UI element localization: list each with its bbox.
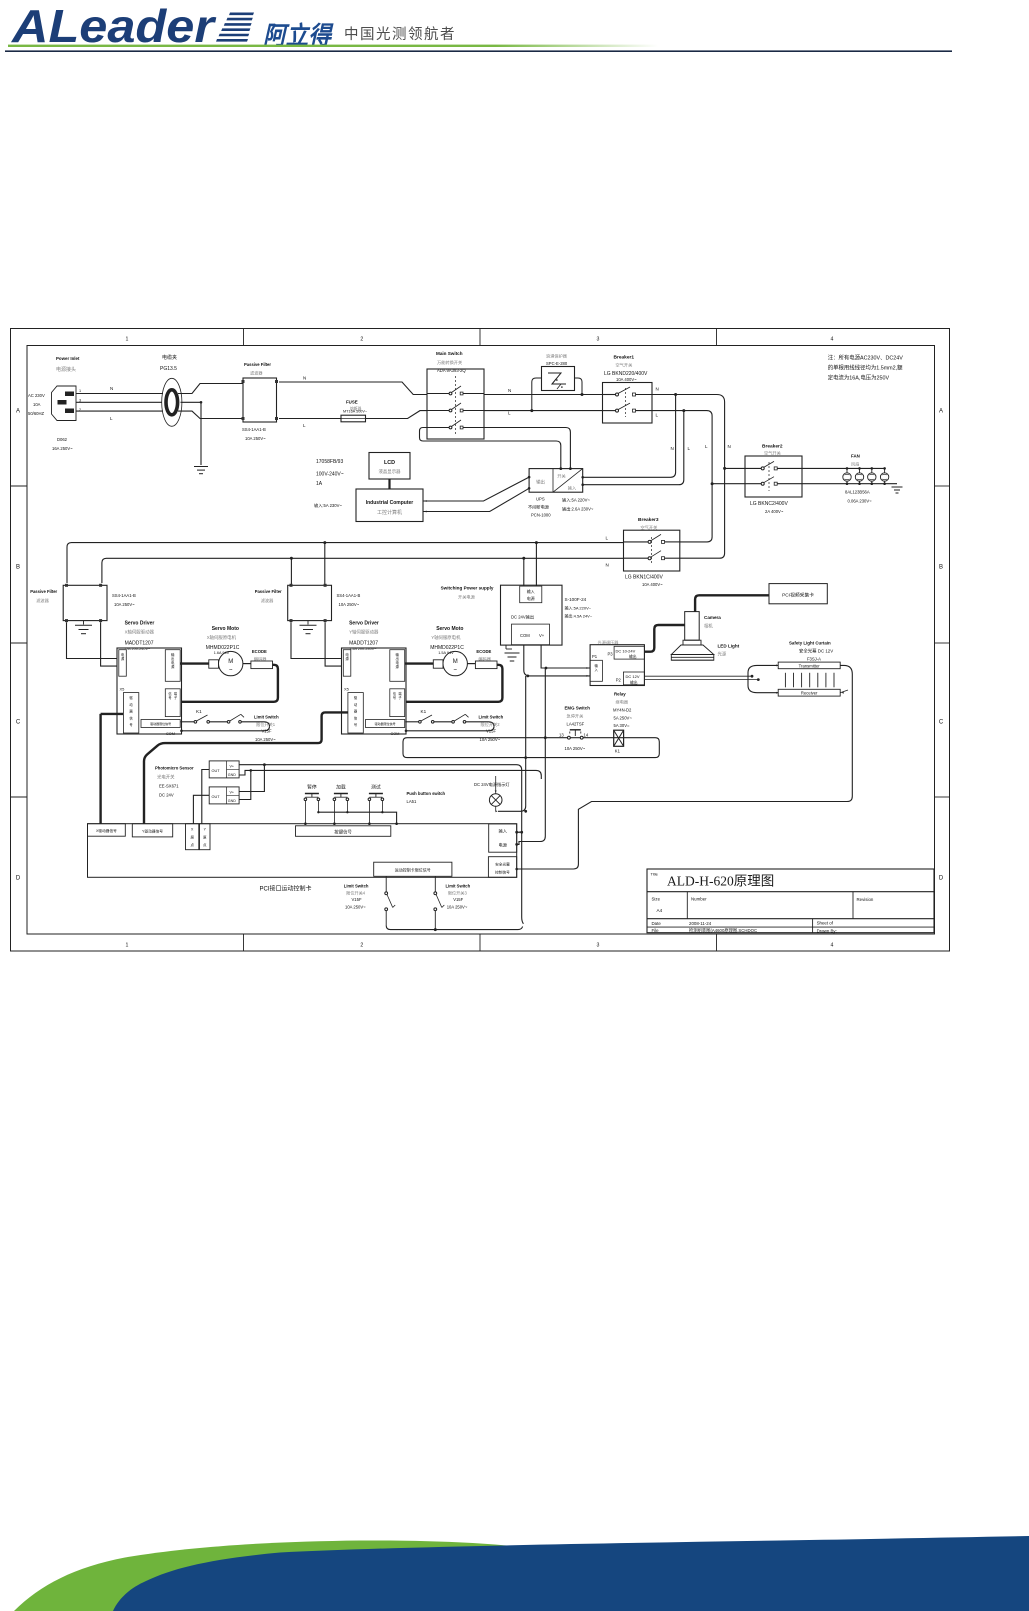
svg-text:光电开关: 光电开关 (157, 774, 175, 781)
svg-text:M: M (453, 659, 458, 665)
svg-text:Limit Switch: Limit Switch (344, 884, 369, 889)
svg-text:点: 点 (190, 842, 194, 847)
svg-text:Passive Filter: Passive Filter (244, 362, 271, 367)
svg-text:1A: 1A (316, 481, 323, 487)
svg-text:按键信号: 按键信号 (334, 829, 352, 836)
svg-text:输出:4.5A 24V~: 输出:4.5A 24V~ (565, 613, 593, 619)
svg-text:安全光幕: 安全光幕 (495, 862, 510, 867)
svg-text:4: 4 (831, 337, 834, 343)
svg-text:动: 动 (354, 702, 358, 707)
svg-text:1.5A 94V: 1.5A 94V (438, 651, 454, 655)
svg-text:Switching Power supply: Switching Power supply (441, 586, 494, 591)
svg-text:Date: Date (652, 921, 662, 926)
svg-text:Servo Driver: Servo Driver (349, 621, 379, 627)
svg-text:子: 子 (398, 695, 402, 700)
svg-text:源: 源 (396, 664, 400, 669)
svg-text:急停开关: 急停开关 (567, 713, 584, 720)
svg-text:EE-SX671: EE-SX671 (159, 784, 179, 789)
svg-text:限位开关2: 限位开关2 (481, 721, 501, 728)
svg-text:PCI接口运动控制卡: PCI接口运动控制卡 (260, 885, 312, 893)
svg-text:限位开关1: 限位开关1 (256, 721, 276, 728)
svg-text:Servo Moto: Servo Moto (436, 626, 463, 632)
svg-text:加载: 加载 (336, 784, 346, 791)
svg-text:L: L (688, 446, 691, 451)
svg-text:10A 400V~: 10A 400V~ (616, 377, 637, 382)
svg-text:2: 2 (360, 337, 363, 343)
svg-text:D: D (939, 876, 944, 882)
svg-text:X轴伺服原电机: X轴伺服原电机 (207, 634, 237, 641)
svg-text:SPC-E-280: SPC-E-280 (546, 361, 568, 366)
svg-text:不间断电源: 不间断电源 (528, 504, 550, 511)
svg-text:输出: 输出 (629, 654, 637, 659)
svg-text:K1: K1 (615, 749, 621, 754)
svg-text:Power Inlet: Power Inlet (56, 356, 80, 361)
svg-text:信: 信 (129, 715, 133, 720)
svg-text:Drawn By:: Drawn By: (817, 928, 837, 933)
svg-text:PCN-1000: PCN-1000 (531, 513, 551, 518)
svg-text:3: 3 (597, 943, 600, 949)
svg-text:COM: COM (520, 633, 530, 638)
svg-text:N: N (671, 446, 674, 451)
svg-text:Receiver: Receiver (801, 691, 818, 696)
svg-text:驱动器限位信号: 驱动器限位信号 (375, 721, 396, 726)
svg-text:原: 原 (190, 834, 194, 839)
svg-text:File: File (652, 928, 660, 933)
svg-text:3: 3 (597, 337, 600, 343)
svg-text:Sheet of: Sheet of (817, 921, 834, 926)
svg-text:D: D (16, 876, 21, 882)
svg-text:源: 源 (345, 656, 349, 661)
svg-text:B: B (939, 565, 943, 571)
svg-text:M: M (228, 659, 233, 665)
svg-text:控制信号: 控制信号 (495, 870, 510, 875)
svg-text:1: 1 (126, 943, 129, 949)
svg-text:D062: D062 (57, 437, 68, 442)
svg-text:V15F: V15F (262, 729, 272, 734)
svg-text:P1: P1 (592, 654, 598, 659)
svg-text:运动控制卡限位信号: 运动控制卡限位信号 (395, 867, 431, 873)
svg-text:N: N (303, 376, 306, 381)
svg-text:驱: 驱 (354, 696, 358, 700)
svg-text:电缆夹: 电缆夹 (162, 354, 177, 361)
svg-text:10A: 10A (33, 402, 41, 407)
svg-text:DC 24V电源指示灯: DC 24V电源指示灯 (474, 781, 510, 788)
svg-text:10A 250V~: 10A 250V~ (447, 905, 468, 910)
svg-text:空气开关: 空气开关 (641, 524, 658, 531)
svg-text:F3SJ-A: F3SJ-A (807, 657, 821, 662)
svg-text:ADA 9A393-2Q: ADA 9A393-2Q (437, 368, 466, 373)
svg-text:14: 14 (584, 733, 589, 738)
svg-text:入: 入 (595, 668, 599, 672)
svg-text:Number: Number (691, 897, 707, 902)
svg-text:FUSE: FUSE (346, 400, 358, 405)
svg-text:*7A 200-240V~: *7A 200-240V~ (125, 647, 151, 651)
svg-text:限位开关3: 限位开关3 (448, 890, 468, 897)
svg-text:10A 250V~: 10A 250V~ (245, 436, 266, 441)
svg-text:X: X (191, 828, 194, 832)
svg-text:V15F: V15F (486, 729, 496, 734)
svg-text:V+: V+ (230, 764, 235, 768)
svg-text:0.06A 230V~: 0.06A 230V~ (848, 499, 873, 504)
svg-text:5A 30V=: 5A 30V= (614, 723, 631, 728)
svg-text:LED Light: LED Light (718, 644, 740, 649)
svg-text:DC 24V: DC 24V (159, 793, 174, 798)
svg-text:~: ~ (453, 668, 457, 674)
svg-text:Main Switch: Main Switch (436, 351, 463, 356)
svg-text:MADDT1207: MADDT1207 (125, 641, 154, 647)
svg-text:1: 1 (79, 389, 81, 393)
svg-text:Passive Filter: Passive Filter (255, 589, 282, 594)
svg-text:子: 子 (174, 695, 178, 700)
svg-text:N: N (508, 388, 511, 393)
svg-text:MT16A 500V~: MT16A 500V~ (343, 410, 368, 414)
svg-text:N: N (606, 563, 609, 568)
svg-text:动: 动 (129, 702, 133, 707)
svg-text:MY4N-D2: MY4N-D2 (613, 708, 632, 713)
svg-text:器: 器 (354, 710, 358, 714)
svg-text:开关: 开关 (557, 473, 565, 480)
svg-text:Limit Switch: Limit Switch (446, 884, 471, 889)
svg-text:MADDT1207: MADDT1207 (349, 641, 378, 647)
svg-text:X5: X5 (344, 687, 350, 692)
svg-text:Size: Size (652, 897, 661, 902)
svg-text:10A 250V~: 10A 250V~ (345, 905, 366, 910)
svg-text:LG BKN1C/400V: LG BKN1C/400V (625, 575, 663, 581)
svg-text:S-100F-24: S-100F-24 (565, 597, 587, 602)
svg-text:K1: K1 (196, 709, 202, 714)
svg-text:Revision: Revision (857, 897, 874, 902)
svg-text:V+: V+ (539, 633, 545, 638)
svg-text:Servo Driver: Servo Driver (125, 621, 155, 627)
svg-text:10A 250V~: 10A 250V~ (114, 602, 135, 607)
svg-text:SS4-1AA1-B: SS4-1AA1-B (112, 593, 136, 598)
svg-text:ALeader: ALeader (11, 0, 216, 52)
svg-text:输入: 输入 (499, 828, 508, 835)
svg-text:Y轴伺服驱动器: Y轴伺服驱动器 (349, 629, 379, 636)
svg-text:Y: Y (204, 828, 207, 832)
svg-text:V15F: V15F (352, 897, 362, 902)
svg-text:限位开关4: 限位开关4 (346, 890, 366, 897)
svg-text:测试: 测试 (371, 784, 381, 791)
svg-text:10A 250V~: 10A 250V~ (255, 737, 276, 742)
svg-text:安全光幕 DC 12V: 安全光幕 DC 12V (799, 648, 833, 655)
svg-text:GND: GND (228, 773, 236, 777)
svg-text:COM: COM (391, 732, 400, 736)
svg-text:Industrial Computer: Industrial Computer (366, 500, 414, 506)
svg-text:滤波器: 滤波器 (36, 597, 49, 604)
svg-text:检测组装图(A4600原理图.SCHDOC: 检测组装图(A4600原理图.SCHDOC (689, 927, 757, 934)
svg-text:ALD-H-620原理图: ALD-H-620原理图 (667, 874, 774, 889)
svg-text:N: N (656, 387, 659, 392)
svg-text:GND: GND (228, 799, 236, 803)
svg-text:浪涌保护器: 浪涌保护器 (546, 353, 568, 360)
svg-text:L: L (656, 413, 659, 418)
svg-text:继电器: 继电器 (616, 699, 629, 706)
svg-text:LA42TSF: LA42TSF (567, 722, 585, 727)
svg-text:100V-240V~: 100V-240V~ (316, 472, 344, 478)
svg-text:L: L (110, 416, 113, 421)
svg-text:器: 器 (129, 710, 133, 714)
svg-text:L: L (606, 536, 609, 541)
svg-text:开关电源: 开关电源 (458, 594, 476, 601)
svg-text:B: B (16, 565, 20, 571)
svg-text:1.6A 94V: 1.6A 94V (214, 651, 230, 655)
svg-text:P2: P2 (616, 678, 622, 683)
svg-text:OUT: OUT (212, 769, 221, 773)
svg-text:DC 24V输出: DC 24V输出 (511, 614, 534, 621)
svg-text:输入:5A 220V~: 输入:5A 220V~ (562, 497, 590, 504)
svg-text:L: L (303, 423, 306, 428)
svg-text:号: 号 (393, 695, 396, 700)
svg-text:5A 250V~: 5A 250V~ (614, 716, 633, 721)
svg-text:号: 号 (168, 695, 171, 700)
svg-text:Transmitter: Transmitter (799, 663, 821, 668)
svg-text:Y轴伺服原电机: Y轴伺服原电机 (431, 634, 461, 641)
svg-text:Camera: Camera (704, 615, 721, 620)
svg-text:编码器: 编码器 (254, 656, 267, 663)
svg-text:N: N (110, 386, 113, 391)
svg-text:P3: P3 (608, 652, 614, 657)
svg-text:AC 230V: AC 230V (28, 393, 45, 398)
svg-text:4: 4 (831, 943, 834, 949)
svg-text:工控计算机: 工控计算机 (377, 509, 402, 516)
svg-text:L: L (508, 411, 511, 416)
svg-text:OUT: OUT (212, 795, 221, 799)
svg-text:50/60HZ: 50/60HZ (28, 411, 45, 416)
svg-text:Limit Switch: Limit Switch (479, 715, 504, 720)
svg-text:16A 250V~: 16A 250V~ (52, 446, 73, 451)
svg-text:Limit Switch: Limit Switch (254, 715, 279, 720)
svg-text:源: 源 (121, 656, 125, 661)
svg-text:V15F: V15F (453, 897, 463, 902)
svg-text:1: 1 (126, 337, 129, 343)
svg-text:FAN: FAN (851, 454, 860, 459)
svg-text:电源: 电源 (527, 595, 535, 601)
svg-text:V+: V+ (230, 790, 235, 794)
svg-text:光源: 光源 (718, 651, 727, 658)
svg-text:输出: 输出 (536, 479, 545, 486)
svg-text:C: C (939, 720, 944, 726)
svg-text:SS4-1AA1-B: SS4-1AA1-B (242, 427, 266, 432)
svg-text:L: L (705, 444, 708, 449)
svg-text:Title: Title (651, 872, 659, 877)
svg-text:输入:5A 230V~: 输入:5A 230V~ (314, 502, 342, 509)
svg-text:Push button switch: Push button switch (407, 791, 446, 796)
svg-text:ECODE: ECODE (252, 649, 267, 654)
svg-text:定电流为16A,电压为250V: 定电流为16A,电压为250V (828, 374, 890, 382)
svg-text:注：所有电源AC230V、DC24V: 注：所有电源AC230V、DC24V (828, 354, 904, 362)
svg-text:10A 250V~: 10A 250V~ (339, 602, 360, 607)
svg-text:Breaker3: Breaker3 (638, 517, 659, 523)
svg-text:输出: 输出 (630, 680, 638, 685)
svg-text:电源: 电源 (499, 842, 508, 849)
svg-text:源: 源 (171, 664, 175, 669)
svg-text:N: N (728, 444, 731, 449)
svg-text:LCD: LCD (384, 460, 395, 466)
svg-text:UPS: UPS (536, 497, 545, 502)
svg-text:X轴伺服驱动器: X轴伺服驱动器 (125, 629, 155, 636)
svg-text:ECODE: ECODE (476, 649, 491, 654)
svg-text:DC 10-24V: DC 10-24V (616, 649, 636, 654)
svg-text:输入: 输入 (527, 588, 535, 594)
svg-text:信: 信 (354, 715, 358, 720)
svg-text:驱: 驱 (129, 696, 133, 700)
svg-text:A4: A4 (657, 908, 663, 913)
svg-text:SS4-1AA1-B: SS4-1AA1-B (337, 593, 361, 598)
svg-text:DC 12V: DC 12V (626, 674, 640, 679)
svg-text:10A 250V~: 10A 250V~ (565, 746, 586, 751)
svg-text:13: 13 (559, 733, 564, 738)
svg-text:K1: K1 (421, 709, 427, 714)
svg-text:Photomicro Sensor: Photomicro Sensor (155, 766, 194, 771)
svg-text:EMG Switch: EMG Switch (565, 706, 591, 711)
svg-text:Relay: Relay (614, 692, 626, 697)
svg-text:Breaker1: Breaker1 (614, 355, 635, 361)
svg-text:A: A (16, 409, 20, 415)
svg-text:1.5A 200-240V~: 1.5A 200-240V~ (349, 647, 377, 651)
svg-text:2: 2 (360, 943, 363, 949)
svg-text:电源接头: 电源接头 (56, 366, 76, 373)
svg-text:PG13.5: PG13.5 (160, 366, 177, 372)
svg-text:点: 点 (203, 842, 207, 847)
svg-text:X驱动器信号: X驱动器信号 (96, 828, 117, 833)
svg-text:驱动器限位信号: 驱动器限位信号 (150, 721, 171, 726)
svg-text:空气开关: 空气开关 (764, 450, 781, 457)
svg-text:万能转换开关: 万能转换开关 (437, 359, 462, 366)
svg-text:号: 号 (129, 722, 133, 727)
svg-text:相机: 相机 (704, 623, 713, 630)
svg-text:A: A (939, 409, 943, 415)
svg-text:Servo Moto: Servo Moto (212, 626, 239, 632)
svg-text:LG BKNC2/400V: LG BKNC2/400V (750, 501, 788, 507)
svg-text:2A 400V~: 2A 400V~ (765, 509, 784, 514)
svg-text:Y驱动器信号: Y驱动器信号 (142, 828, 163, 833)
svg-text:暂停: 暂停 (307, 784, 317, 791)
svg-text:编码器: 编码器 (478, 656, 491, 663)
svg-text:10A 400V~: 10A 400V~ (642, 582, 663, 587)
svg-text:Safety Light Curtain: Safety Light Curtain (789, 641, 831, 646)
svg-text:风扇: 风扇 (851, 461, 859, 468)
svg-text:2008-11-24: 2008-11-24 (689, 921, 712, 926)
svg-text:COM: COM (166, 732, 175, 736)
svg-text:输入:5A 220V~: 输入:5A 220V~ (565, 605, 592, 611)
svg-text:X5: X5 (120, 687, 126, 692)
svg-text:输出:2.6A 230V~: 输出:2.6A 230V~ (562, 506, 594, 513)
svg-text:LA51: LA51 (407, 799, 417, 804)
svg-text:8AL123B56A: 8AL123B56A (845, 490, 870, 495)
svg-text:的单根用线线径均为1.5mm2,额: 的单根用线线径均为1.5mm2,额 (828, 364, 903, 372)
svg-text:Breaker2: Breaker2 (762, 444, 783, 450)
svg-text:C: C (16, 720, 21, 726)
svg-text:PCI视频采集卡: PCI视频采集卡 (782, 592, 814, 599)
svg-text:液晶显示器: 液晶显示器 (379, 468, 402, 475)
svg-text:17058FB/93: 17058FB/93 (316, 459, 343, 465)
svg-text:~: ~ (229, 668, 233, 674)
svg-text:号: 号 (354, 722, 358, 727)
svg-text:输入: 输入 (568, 485, 577, 492)
svg-text:原: 原 (203, 834, 207, 839)
svg-text:中国光测领航者: 中国光测领航者 (344, 26, 456, 43)
svg-text:Passive Filter: Passive Filter (30, 589, 57, 594)
svg-text:滤波器: 滤波器 (250, 370, 263, 377)
svg-text:滤波器: 滤波器 (261, 597, 274, 604)
svg-text:空气开关: 空气开关 (616, 362, 633, 369)
